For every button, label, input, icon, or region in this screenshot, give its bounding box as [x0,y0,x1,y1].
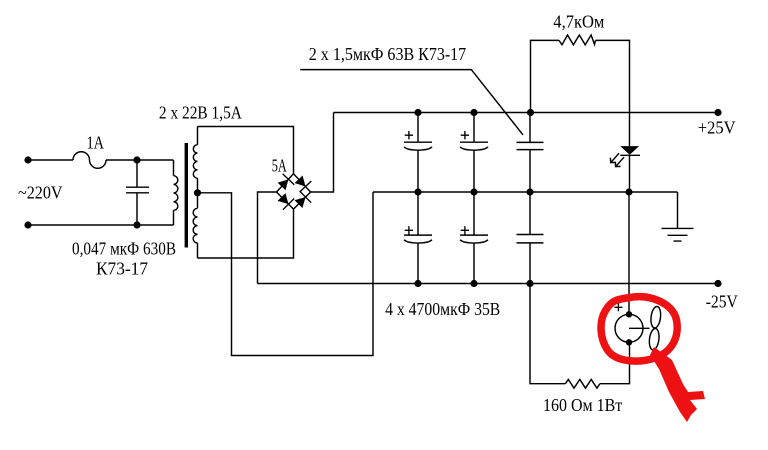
capacitor C2 plates [404,142,432,150]
junction dot center tap [194,189,201,196]
resistor R1 zigzag [559,35,596,45]
red arrow annotation [650,347,705,422]
junction dot mid rail C2 [414,188,421,195]
plus sign fan [614,303,622,311]
capacitor C7 plates [517,235,544,243]
terminal dot +25V [714,109,721,116]
junction dot bottom rail C5 [470,280,477,287]
junction dot mid rail LED [625,188,632,195]
svg-text:160 Ом 1Вт: 160 Ом 1Вт [543,395,623,415]
ground lead [677,192,679,228]
wire: center tap route to middle rail [201,192,373,356]
bridge diode D1 cathode bar [283,174,295,185]
red marker circle annotation [601,297,677,361]
bridge diode D3 [278,193,289,204]
transformer T1 secondary winding top [193,127,197,193]
terminal dot -25V [714,280,721,287]
bridge diode D1 [278,179,289,190]
wire: AC input bottom [28,224,174,226]
transformer T1 core [185,143,188,248]
LED emission arrow 1 [610,153,619,162]
resistor R2 160 Om loop [530,284,565,384]
resistor R1 4,7kOm loop [531,40,560,112]
wire: AC input top [28,159,73,161]
wire: R1 to LED column [596,40,630,146]
bridge rectifier VD1 diamond [277,174,311,209]
junction dot bottom rail C4 [414,280,421,287]
wire: bridge plus up to top rail [311,113,334,193]
svg-text:К73-17: К73-17 [96,258,148,278]
capacitor C1 0,047uF plates [126,187,149,193]
capacitor C4 bottom leads [417,192,419,284]
fan M1 axis [629,327,650,329]
junction dot mid rail C6 [526,188,533,195]
capacitor C6 plates [517,142,544,149]
capacitor C3 plates [460,142,488,150]
LED VD2 cathode bar [620,154,640,156]
LED VD2 triangle [620,146,639,155]
wire: R2 to fan minus [600,342,630,383]
transformer T1 primary winding [174,160,178,225]
svg-text:5А: 5А [272,155,287,175]
wire: secondary bottom to bridge [198,209,294,258]
bridge diode D4 [295,197,306,208]
transformer T1 secondary winding bottom [193,193,197,258]
plus sign C5 [461,226,469,234]
wire: LED to middle rail [629,155,631,192]
junction dot top rail C3 [470,109,477,116]
svg-text:4 х 4700мкФ 35В: 4 х 4700мкФ 35В [385,299,500,319]
capacitor C1 lead top [136,160,138,187]
capacitor C4 plates [404,235,432,243]
resistor R2 zigzag [565,379,600,388]
junction dot mid rail C3 [470,188,477,195]
capacitor C2 top leads [417,113,419,193]
bridge diode D2 [295,176,306,187]
capacitor C3 top leads [473,113,475,193]
svg-text:~220V: ~220V [18,182,63,202]
plus sign C2 [405,131,413,139]
svg-text:2 x 22В 1,5А: 2 x 22В 1,5А [159,102,242,122]
wire: -25V bottom rail [258,283,719,285]
svg-text:4,7кОм: 4,7кОм [553,12,604,32]
bridge diode D3 cathode bar [283,199,294,210]
plus sign C3 [461,131,469,139]
svg-text:+25V: +25V [698,117,736,137]
fan M1 propeller blade top [650,306,662,329]
svg-text:2 х 1,5мкФ 63В К73-17: 2 х 1,5мкФ 63В К73-17 [309,44,467,64]
fuse FU1 1A [73,152,106,169]
wire: fuse to node A [106,159,174,161]
svg-text:-25V: -25V [706,292,738,312]
junction dot C1 top [133,156,140,163]
terminal dot AC top [24,156,31,163]
junction dot C1 bottom [133,221,140,228]
fan M1 terminal plus bump [626,311,632,317]
capacitor C1 lead bottom [136,193,138,225]
junction dot top rail C2 [414,109,421,116]
wire: secondary top to bridge [198,127,294,174]
junction dot bottom rail R2 [526,280,533,287]
fan M1 propeller blade bottom [648,328,660,351]
wire: +25V top rail [334,112,719,114]
capacitor C7 film bottom leads [529,192,531,284]
label pointer line for C6 C7 [300,70,523,135]
fan M1 circle [615,314,643,342]
capacitor C5 bottom leads [473,192,475,284]
fan M1 terminal minus bump [626,339,632,345]
LED emission arrow 2 [615,157,624,166]
wire: bridge minus to bottom rail [258,192,277,284]
svg-text:1А: 1А [87,132,105,152]
ground symbol bars [662,228,694,241]
capacitor C5 plates [460,235,488,243]
bridge diode D4 cathode bar [300,191,311,202]
svg-text:0,047 мкФ 630В: 0,047 мкФ 630В [72,238,176,258]
plus sign C4 [405,226,413,234]
wire: fan feed from 0V [628,192,630,314]
capacitor C6 film top leads [529,113,531,193]
bridge diode D2 cathode bar [300,181,312,192]
wire: 0V middle rail [373,191,678,193]
junction dot top rail R1 [527,109,534,116]
terminal dot AC bottom [24,221,31,228]
